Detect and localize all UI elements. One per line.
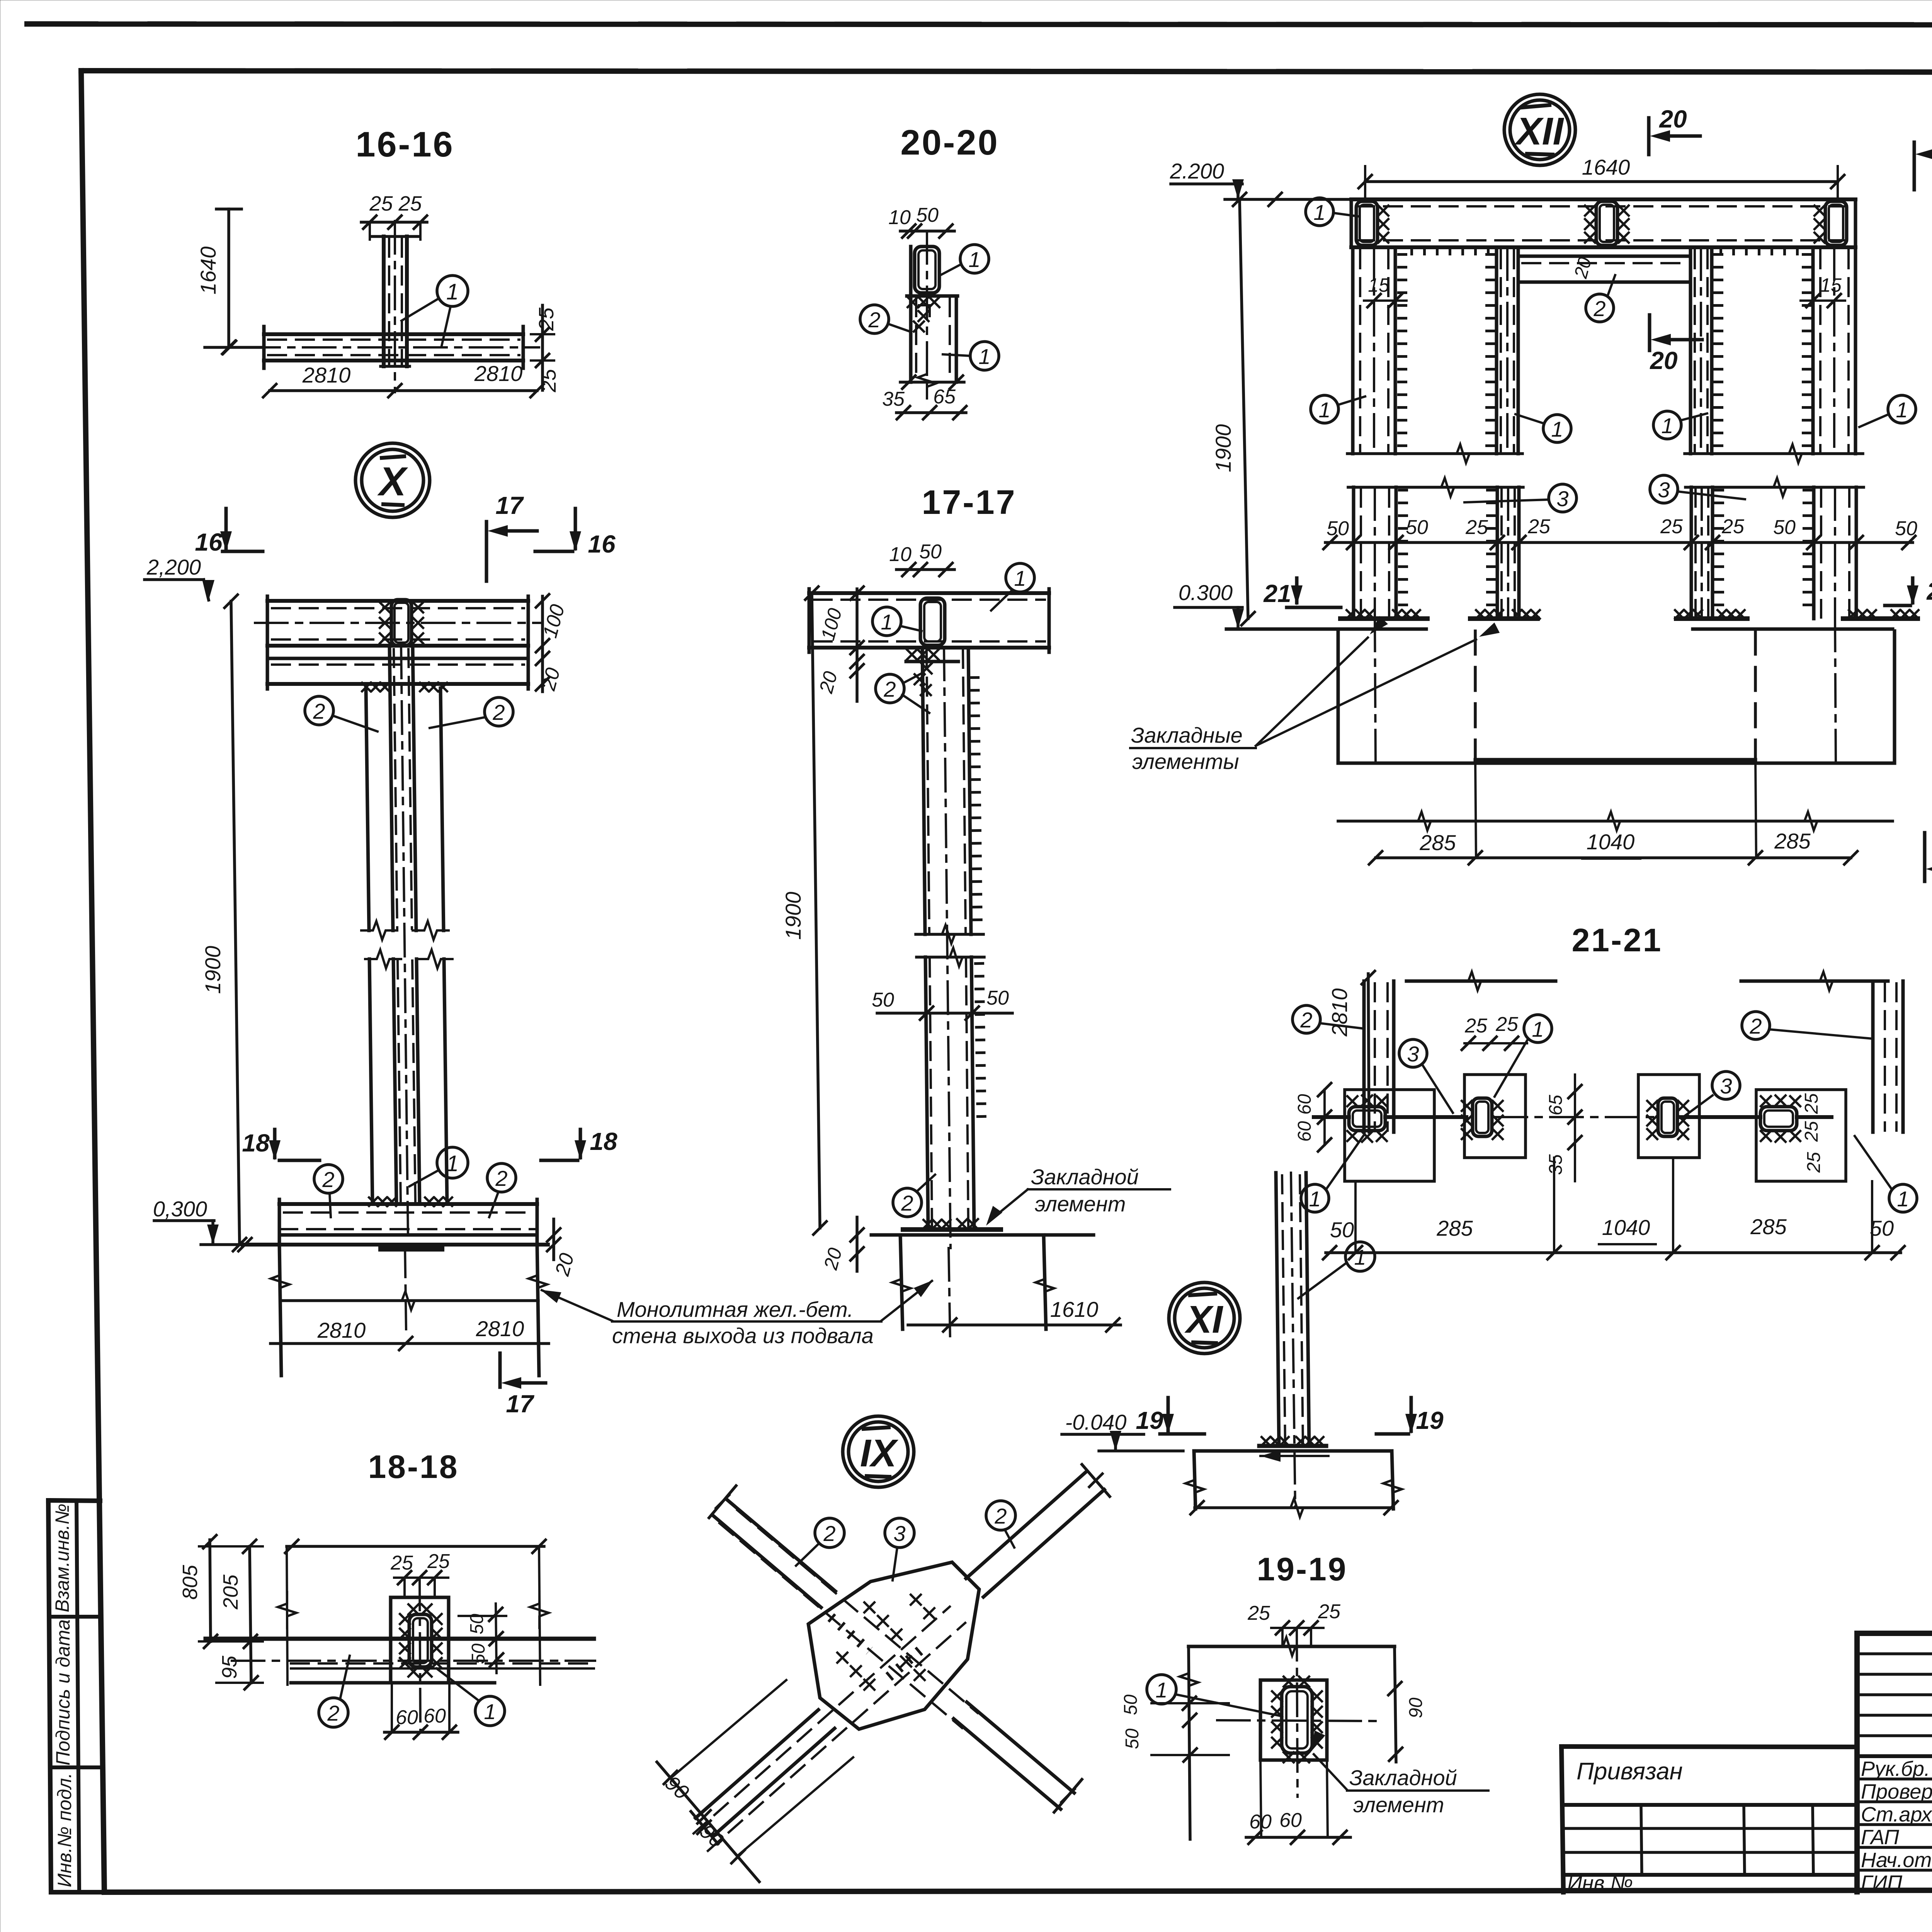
welds around tube <box>400 1614 410 1624</box>
svg-text:35: 35 <box>882 388 905 410</box>
svg-text:285: 285 <box>1419 830 1456 855</box>
svg-text:18: 18 <box>242 1129 270 1157</box>
svg-text:Инв.№: Инв.№ <box>1567 1872 1633 1895</box>
circle 2 upper-right <box>986 1501 1015 1530</box>
plates vertical left <box>1362 981 1366 1132</box>
svg-text:2: 2 <box>1300 1008 1312 1032</box>
sidebar top cap <box>48 1500 100 1501</box>
svg-text:Подпись и дата: Подпись и дата <box>52 1619 74 1765</box>
circle 1 top-left <box>1306 198 1333 226</box>
welds under tube <box>908 297 918 307</box>
svg-text:20-20: 20-20 <box>900 123 999 162</box>
circle 1 <box>1147 1675 1176 1704</box>
extension verticals <box>1354 1181 1357 1253</box>
svg-text:2.200: 2.200 <box>1170 159 1224 183</box>
welds above plates <box>1347 610 1374 619</box>
svg-text:19: 19 <box>1416 1406 1444 1434</box>
column <box>1276 1173 1279 1446</box>
svg-text:1: 1 <box>446 1151 459 1176</box>
circle 1 top-right <box>1006 563 1034 592</box>
sidebar strip inner divider <box>77 1500 79 1892</box>
circle 1 right outer <box>1888 395 1916 423</box>
guideline left <box>287 1546 287 1685</box>
gusset octagon <box>808 1562 979 1729</box>
svg-text:60: 60 <box>1294 1121 1315 1142</box>
wall face line <box>1314 1115 1349 1119</box>
svg-text:50: 50 <box>1773 516 1796 539</box>
svg-text:Рук.бр.: Рук.бр. <box>1861 1757 1930 1781</box>
circle 2 left bottom <box>314 1165 343 1193</box>
plates vertical right <box>1871 981 1875 1132</box>
inner dim line foundation <box>280 1299 538 1302</box>
welds at 21-21 tubes <box>1347 1096 1357 1106</box>
plate square <box>391 1597 449 1683</box>
plate under beam <box>906 660 958 663</box>
svg-text:50: 50 <box>1122 1728 1143 1749</box>
outer plates (element 2) <box>366 688 369 930</box>
weld corner bracket <box>919 305 930 316</box>
base plate <box>903 1227 1001 1232</box>
svg-text:285: 285 <box>1774 829 1811 853</box>
svg-text:1: 1 <box>1354 1245 1366 1269</box>
dim row line <box>1325 541 1913 544</box>
svg-text:1040: 1040 <box>1602 1215 1650 1240</box>
top beam <box>267 599 528 603</box>
svg-text:17-17: 17-17 <box>922 483 1016 521</box>
svg-text:3: 3 <box>1407 1042 1419 1066</box>
circle 3 <box>885 1518 914 1548</box>
svg-text:16-16: 16-16 <box>355 125 454 164</box>
gusset weld marks <box>864 1602 874 1612</box>
foundation verticals <box>279 1245 281 1376</box>
circle 1 right inner <box>1653 411 1681 439</box>
sidebar row line 2 <box>50 1765 103 1769</box>
svg-text:25: 25 <box>1527 515 1551 538</box>
svg-text:2: 2 <box>1593 296 1605 321</box>
svg-text:50: 50 <box>986 987 1009 1009</box>
svg-text:205: 205 <box>219 1574 242 1610</box>
brace upper-right <box>966 1471 1087 1578</box>
svg-text:20: 20 <box>820 1245 846 1272</box>
svg-text:17: 17 <box>495 492 524 519</box>
svg-text:60: 60 <box>1294 1094 1315 1115</box>
svg-text:3: 3 <box>1658 478 1670 502</box>
svg-text:2,200: 2,200 <box>146 555 201 579</box>
dim line top of stub <box>361 221 427 224</box>
band axis <box>232 1660 595 1662</box>
foundation pit dashed <box>1474 631 1477 760</box>
circle 2 upper-left <box>815 1518 844 1548</box>
foundation 17-17 <box>900 1235 903 1329</box>
beam tubes <box>1356 201 1378 245</box>
svg-text:2: 2 <box>313 699 325 723</box>
axes <box>1297 1628 1298 1797</box>
brace end ticks lower-right <box>1054 1779 1082 1812</box>
footing dim line <box>1195 1506 1393 1509</box>
svg-text:16: 16 <box>195 528 223 556</box>
welds at base <box>923 1220 951 1228</box>
left level tick <box>205 346 264 349</box>
beam <box>809 591 1049 595</box>
svg-text:50: 50 <box>1406 516 1428 539</box>
plate outline left <box>1345 1090 1434 1181</box>
svg-text:50: 50 <box>1870 1216 1894 1240</box>
foundation axes <box>1375 619 1376 763</box>
svg-text:2: 2 <box>823 1521 835 1546</box>
svg-text:1640: 1640 <box>1582 155 1630 179</box>
svg-text:X: X <box>377 459 408 504</box>
node circle XII <box>1504 94 1575 165</box>
svg-text:20: 20 <box>1650 347 1677 374</box>
svg-text:25: 25 <box>535 307 558 331</box>
arrow under plate <box>1260 1455 1328 1457</box>
svg-text:Ст.арх.: Ст.арх. <box>1861 1803 1932 1826</box>
svg-text:50: 50 <box>468 1643 489 1664</box>
svg-text:1610: 1610 <box>1050 1297 1099 1321</box>
bottom dim 2810 2810 <box>270 389 537 392</box>
band dashed <box>291 1662 594 1665</box>
column A <box>1351 247 1355 454</box>
brace lower-left <box>696 1710 818 1818</box>
svg-text:1: 1 <box>1532 1017 1544 1041</box>
brace lower-right <box>967 1702 1074 1793</box>
svg-text:1: 1 <box>1896 398 1908 422</box>
tube at 17-17 <box>920 598 945 645</box>
welds at tube <box>380 602 390 612</box>
svg-text:3: 3 <box>893 1521 905 1546</box>
svg-text:0.300: 0.300 <box>1179 580 1233 605</box>
svg-text:10: 10 <box>889 543 912 566</box>
brace upper-left <box>726 1499 835 1591</box>
top serration under beam <box>1410 245 1492 255</box>
circle 2 left <box>1293 1005 1320 1033</box>
leader to 17-17 foundation <box>881 1281 932 1321</box>
circle 1 mid <box>437 1147 468 1178</box>
svg-text:285: 285 <box>1436 1216 1473 1240</box>
circle 1 left inner <box>1543 415 1571 442</box>
column body 17-17 <box>922 648 925 934</box>
circle 2 left top <box>305 696 333 725</box>
svg-text:3: 3 <box>1556 486 1568 511</box>
svg-text:25: 25 <box>1801 1093 1822 1114</box>
beam horizontals <box>264 332 523 336</box>
svg-text:25: 25 <box>1465 516 1488 539</box>
svg-text:19-19: 19-19 <box>1257 1551 1348 1587</box>
circle 3 right <box>1712 1071 1740 1099</box>
beam lower band <box>267 657 528 660</box>
tube 19-19 <box>1282 1687 1312 1753</box>
stub column verticals <box>382 236 386 366</box>
svg-text:Закладной: Закладной <box>1031 1165 1139 1189</box>
gusset serration marks <box>831 1617 869 1651</box>
circle 2 right <box>1742 1012 1770 1039</box>
svg-text:2: 2 <box>868 308 880 332</box>
svg-text:2: 2 <box>994 1504 1007 1528</box>
svg-text:20: 20 <box>1659 105 1687 133</box>
svg-text:50: 50 <box>1121 1694 1141 1715</box>
node circle IX <box>843 1416 914 1487</box>
tubes <box>1349 1107 1385 1131</box>
TITLE BLOCK <box>1561 1633 1932 1932</box>
column B <box>1495 247 1498 454</box>
beam end verticals <box>262 327 266 368</box>
svg-text:2810: 2810 <box>302 363 351 387</box>
welds at beam tubes <box>1378 206 1388 216</box>
1900 dim line <box>231 601 240 1245</box>
top dim line <box>287 1545 544 1548</box>
top lines left <box>1406 980 1556 983</box>
svg-text:ГАП: ГАП <box>1861 1826 1900 1849</box>
circle 2 upper <box>876 674 904 703</box>
svg-text:50: 50 <box>872 989 894 1011</box>
circle 2 <box>860 305 889 333</box>
svg-text:25: 25 <box>427 1550 450 1573</box>
plate box <box>1260 1680 1327 1760</box>
break lines <box>1347 452 1522 455</box>
svg-text:1900: 1900 <box>1211 424 1235 473</box>
mini table rows <box>1857 1652 1932 1655</box>
frame left <box>81 71 104 1892</box>
beam axis <box>247 346 539 349</box>
column D <box>1811 247 1815 454</box>
ground line XI <box>1194 1449 1392 1453</box>
svg-text:21-21: 21-21 <box>1572 922 1663 958</box>
svg-text:21: 21 <box>1926 577 1932 605</box>
svg-text:1: 1 <box>968 247 980 272</box>
base plates <box>1340 616 1427 621</box>
node circle X <box>355 443 430 517</box>
stub axis <box>394 221 396 392</box>
svg-text:805: 805 <box>179 1565 202 1600</box>
svg-text:1: 1 <box>1318 398 1330 422</box>
svg-text:2: 2 <box>883 677 896 701</box>
svg-text:2810: 2810 <box>476 1316 524 1341</box>
svg-text:65: 65 <box>1546 1095 1566 1116</box>
ground lines <box>1226 628 1426 631</box>
svg-text:IX: IX <box>860 1432 899 1475</box>
column C <box>1689 247 1692 454</box>
circle 1 top-left <box>872 607 901 636</box>
svg-text:2: 2 <box>1749 1014 1762 1038</box>
svg-text:2810: 2810 <box>1327 988 1352 1037</box>
1640 dim line <box>227 209 230 347</box>
svg-text:15: 15 <box>1368 274 1389 296</box>
svg-text:2810: 2810 <box>317 1318 366 1342</box>
svg-text:ГИП: ГИП <box>1861 1871 1903 1895</box>
svg-text:стена выхода из подвала: стена выхода из подвала <box>612 1323 874 1348</box>
svg-text:элемент: элемент <box>1353 1793 1444 1817</box>
svg-text:19: 19 <box>1136 1406 1163 1434</box>
sidebar bottom cap <box>51 1890 104 1895</box>
svg-text:10: 10 <box>888 206 911 229</box>
section marker 17 bottom <box>498 1353 502 1387</box>
svg-text:18: 18 <box>590 1128 617 1155</box>
svg-text:2: 2 <box>492 700 505 724</box>
circle 1 <box>475 1696 505 1726</box>
svg-text:1: 1 <box>484 1699 496 1724</box>
left dim lines <box>210 1540 211 1641</box>
column body <box>389 646 393 930</box>
svg-text:-0.040: -0.040 <box>1065 1410 1127 1434</box>
sidebar row line 1 <box>49 1615 101 1619</box>
circle 3 left <box>1399 1039 1427 1067</box>
svg-text:20: 20 <box>1570 255 1595 281</box>
top beam <box>1351 197 1855 201</box>
svg-text:1: 1 <box>1313 200 1325 224</box>
svg-text:XI: XI <box>1184 1298 1224 1341</box>
plate under tube <box>907 294 957 298</box>
welds at plate top <box>362 683 389 691</box>
svg-text:50: 50 <box>919 541 942 563</box>
svg-text:3: 3 <box>1720 1074 1732 1098</box>
foundation axis <box>405 1245 406 1329</box>
svg-text:Привязан: Привязан <box>1577 1758 1683 1785</box>
top line <box>1189 1645 1395 1648</box>
svg-text:25: 25 <box>1721 515 1745 538</box>
svg-text:0,300: 0,300 <box>153 1197 207 1221</box>
svg-text:2: 2 <box>901 1191 913 1215</box>
svg-text:35: 35 <box>1546 1154 1566 1175</box>
guideline right <box>539 1546 540 1685</box>
svg-text:2: 2 <box>327 1701 339 1725</box>
svg-text:1: 1 <box>1309 1187 1321 1211</box>
column tube top <box>391 600 412 646</box>
circle 3 right <box>1650 475 1678 503</box>
welds around tube <box>1272 1691 1282 1701</box>
circle 1 <box>1345 1242 1375 1271</box>
svg-text:Закладной: Закладной <box>1349 1765 1457 1790</box>
tube <box>915 247 939 293</box>
right dim 100/20 <box>541 596 544 692</box>
brace end ticks lower-left <box>691 1811 718 1844</box>
svg-text:1: 1 <box>881 610 893 634</box>
tube 18-18 <box>409 1614 432 1667</box>
sidebar strip outer line <box>48 1500 51 1892</box>
svg-text:25: 25 <box>1804 1152 1824 1173</box>
svg-text:25: 25 <box>1318 1600 1341 1623</box>
svg-text:50: 50 <box>916 204 939 226</box>
node circle XI <box>1169 1282 1240 1354</box>
leader to X foundation <box>542 1290 612 1321</box>
svg-text:1: 1 <box>1551 417 1563 441</box>
break marks <box>361 921 397 940</box>
svg-text:25: 25 <box>1464 1015 1488 1037</box>
band bottom <box>291 1681 495 1685</box>
plate outline right <box>1756 1090 1846 1181</box>
svg-text:90: 90 <box>1406 1697 1426 1718</box>
svg-text:1: 1 <box>1897 1187 1909 1211</box>
tube axis vertical <box>420 1578 420 1732</box>
main stamp outline <box>1857 1631 1932 1636</box>
svg-text:1: 1 <box>1661 413 1673 438</box>
footing <box>1194 1451 1196 1509</box>
svg-text:1: 1 <box>1014 566 1026 590</box>
svg-text:2: 2 <box>322 1167 334 1192</box>
beam band heavy line <box>206 1637 594 1641</box>
bottom dim line <box>1326 1251 1901 1254</box>
svg-text:1900: 1900 <box>781 892 805 940</box>
svg-text:25: 25 <box>1801 1121 1822 1142</box>
svg-text:50: 50 <box>1330 1218 1354 1242</box>
svg-text:25: 25 <box>1495 1013 1519 1036</box>
svg-text:Провер.: Провер. <box>1861 1780 1932 1803</box>
inner plate outline left <box>1464 1075 1526 1158</box>
svg-text:20: 20 <box>815 669 842 696</box>
weld corner marks below plate <box>922 663 932 673</box>
door header <box>1518 255 1690 258</box>
Привязан table <box>1561 1747 1857 1747</box>
svg-text:60: 60 <box>1279 1809 1302 1832</box>
svg-text:285: 285 <box>1750 1214 1787 1239</box>
base plate <box>381 1246 442 1252</box>
circle 1 top <box>960 245 989 273</box>
svg-text:элементы: элементы <box>1132 749 1239 774</box>
inner plate outline right <box>1638 1075 1699 1158</box>
svg-text:2810: 2810 <box>474 361 523 386</box>
bottom beam <box>279 1202 537 1206</box>
svg-text:21: 21 <box>1263 580 1291 607</box>
1900 dim <box>812 593 820 1228</box>
svg-text:16: 16 <box>588 530 616 558</box>
svg-text:Нач.отд.: Нач.отд. <box>1861 1849 1932 1872</box>
paper top edge <box>27 24 1932 25</box>
top lines right <box>1741 980 1888 983</box>
circle 2 right bottom <box>487 1163 516 1192</box>
svg-text:95: 95 <box>218 1655 241 1679</box>
circle 2 header <box>1586 294 1614 322</box>
circle 2 <box>319 1698 348 1727</box>
svg-text:25 25: 25 25 <box>369 192 422 215</box>
svg-text:2: 2 <box>495 1166 507 1190</box>
svg-text:элемент: элемент <box>1035 1192 1126 1216</box>
1900 dim left <box>1240 199 1248 619</box>
svg-text:25: 25 <box>1660 515 1683 538</box>
svg-text:Закладные: Закладные <box>1131 723 1243 747</box>
ground line <box>871 1233 1094 1237</box>
svg-text:1040: 1040 <box>1587 830 1635 854</box>
brace end ticks upper-right <box>1082 1464 1110 1497</box>
circle 1 left outer <box>1311 395 1338 423</box>
svg-text:1: 1 <box>1155 1678 1167 1702</box>
svg-text:100: 100 <box>817 606 846 643</box>
welds bottom beam <box>369 1197 396 1206</box>
svg-text:1: 1 <box>446 279 459 304</box>
dim line <box>900 230 954 233</box>
brace end ticks upper-left <box>709 1486 736 1518</box>
frame bottom <box>104 1889 1932 1892</box>
serration combs <box>1397 253 1407 452</box>
frame top <box>81 71 1932 73</box>
svg-text:18-18: 18-18 <box>368 1449 459 1485</box>
left dims 100 20 <box>855 589 859 701</box>
serration comb right side upper <box>975 676 978 927</box>
break + bottom ticks <box>918 362 936 398</box>
circle 2 lower <box>893 1188 922 1217</box>
circle 1 bottom <box>970 342 999 370</box>
circle 3 left <box>1549 484 1577 512</box>
bottom circles 1 <box>1301 1184 1329 1212</box>
column body <box>909 247 913 382</box>
svg-text:17: 17 <box>506 1390 535 1418</box>
svg-text:15: 15 <box>1820 274 1842 296</box>
svg-text:Инв.№ подл.: Инв.№ подл. <box>54 1773 75 1887</box>
base plate XI <box>1259 1444 1326 1448</box>
svg-text:1: 1 <box>978 344 990 369</box>
circle 2 right top <box>485 697 513 726</box>
svg-text:XII: XII <box>1514 110 1564 153</box>
svg-text:Взам.инв.№: Взам.инв.№ <box>51 1503 73 1612</box>
svg-text:1900: 1900 <box>201 946 225 994</box>
